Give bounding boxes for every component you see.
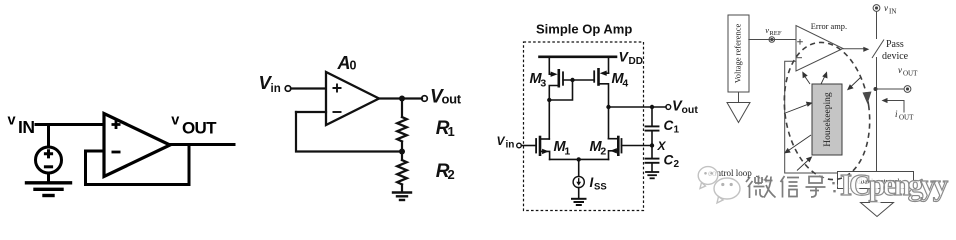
svg-text:ICpengyy: ICpengyy — [840, 167, 949, 202]
